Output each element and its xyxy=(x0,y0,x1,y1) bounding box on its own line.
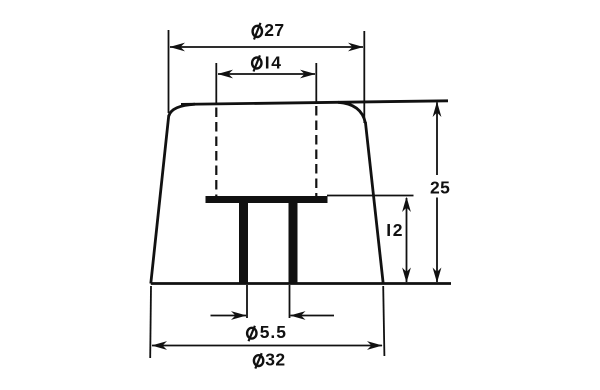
extension line phi27 left xyxy=(168,30,170,113)
extension line phi27 right xyxy=(363,31,365,123)
dimension line phi5.5 right tail with arrow xyxy=(290,311,334,320)
hidden line dashed left (phi14 bore) xyxy=(215,108,217,197)
dimension text phi27 xyxy=(253,20,285,40)
dimension text 12 xyxy=(386,220,404,240)
extension line phi14 right xyxy=(315,63,317,104)
dimension line 25 vertical xyxy=(433,102,442,283)
svg-text:5.5: 5.5 xyxy=(260,322,287,342)
svg-text:I4: I4 xyxy=(265,53,283,73)
dimension text 25 xyxy=(430,178,450,198)
dimension line phi27 xyxy=(170,43,364,52)
section left leg wall xyxy=(239,203,248,284)
hidden line dashed right (phi14 bore) xyxy=(315,106,317,196)
svg-text:32: 32 xyxy=(265,350,285,370)
dimension line 12 vertical xyxy=(402,197,411,283)
dimension line phi14 xyxy=(218,70,316,79)
body outline top edge with extension line to 25 dimension xyxy=(181,101,448,105)
section right leg wall xyxy=(289,203,298,284)
section flange bar (metal insert top) xyxy=(206,196,328,203)
body outline top-right rounded corner xyxy=(338,102,365,123)
extension line flange right (for 12 dimension) xyxy=(327,195,414,197)
extension line phi14 left xyxy=(215,63,217,104)
svg-text:27: 27 xyxy=(264,20,284,40)
body outline top-left rounded corner xyxy=(169,104,195,116)
svg-text:I2: I2 xyxy=(386,220,404,240)
extension line phi5.5 left xyxy=(246,285,248,318)
dimension line phi32 xyxy=(152,341,383,350)
dimension line phi5.5 left tail with arrow xyxy=(211,311,247,320)
extension line phi32 left xyxy=(149,286,152,358)
body outline left slanted side xyxy=(151,115,169,284)
body outline bottom edge with extension to vertical dimensions xyxy=(151,282,451,285)
dimension text phi14 xyxy=(252,53,282,73)
extension line phi32 right xyxy=(383,286,384,356)
dimension text phi32 xyxy=(254,350,286,370)
body outline right slanted side xyxy=(365,122,383,284)
dimension text phi5.5 xyxy=(247,322,287,342)
svg-text:25: 25 xyxy=(430,178,450,198)
extension line phi5.5 right xyxy=(289,285,291,318)
